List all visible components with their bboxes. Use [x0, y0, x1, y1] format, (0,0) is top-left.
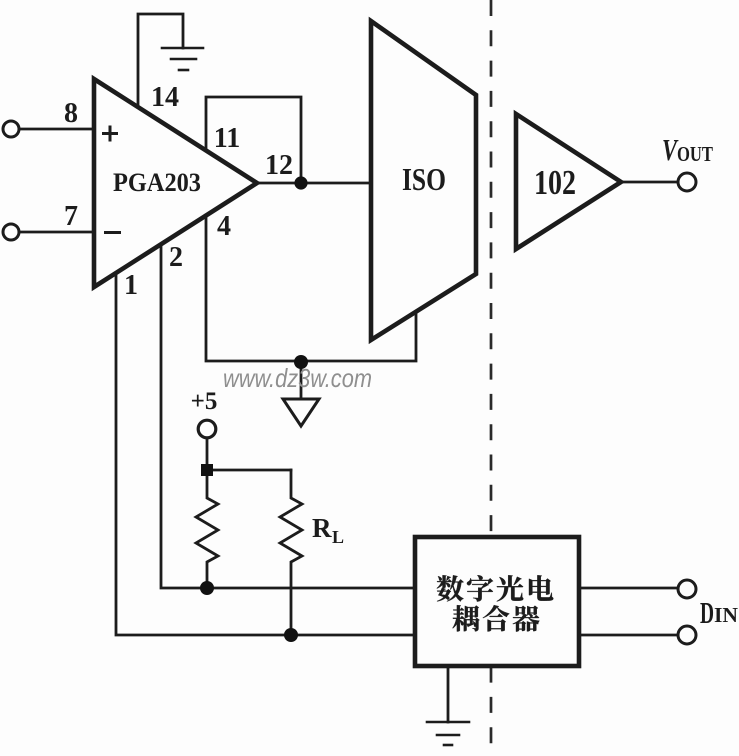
- wire 102 output: [621, 181, 677, 184]
- wire pin 8 input: [19, 128, 94, 131]
- ground G1: [162, 48, 203, 70]
- junction node pin 12: [294, 176, 307, 189]
- junction node RL bottom: [284, 628, 298, 642]
- wire pin 7 input: [19, 231, 94, 234]
- plus sign input: [102, 126, 118, 142]
- junction node feedback: [294, 355, 308, 369]
- input terminal circle pin 8: [3, 121, 19, 137]
- input terminal circle pin 7: [3, 224, 19, 240]
- wire DIN lower: [579, 634, 677, 637]
- svg-text:L: L: [332, 527, 344, 547]
- wire pin 11 loop to pin 12: [206, 97, 301, 183]
- op-amp U3 102 body: [516, 114, 621, 249]
- svg-text:R: R: [312, 513, 332, 543]
- svg-text:1: 1: [124, 270, 138, 301]
- svg-text:12: 12: [265, 150, 293, 181]
- terminal circle DIN lower: [678, 626, 696, 644]
- wire to analog ground triangle: [300, 361, 303, 399]
- ISO block U2: [371, 21, 476, 340]
- wire pin 4 down and feedback bottom: [206, 215, 416, 361]
- wire junction to RL top: [207, 469, 291, 472]
- +5 supply terminal circle: [198, 420, 216, 438]
- svg-text:2: 2: [169, 242, 183, 273]
- minus sign input: [104, 231, 121, 234]
- resistor R1: [196, 470, 218, 588]
- optocoupler box U4: [415, 537, 579, 666]
- resistor RL: [280, 470, 302, 635]
- svg-text:14: 14: [151, 82, 179, 113]
- svg-text:7: 7: [64, 201, 78, 232]
- svg-text:ISO: ISO: [402, 161, 446, 197]
- wire +5 to junction: [206, 438, 209, 470]
- analog ground triangle: [283, 399, 319, 426]
- svg-text:OUT: OUT: [677, 142, 713, 166]
- junction node R1 bottom: [200, 581, 214, 595]
- op-amp U1 PGA203 body: [94, 79, 257, 287]
- svg-text:4: 4: [217, 211, 231, 242]
- svg-text:D: D: [700, 595, 714, 630]
- svg-text:8: 8: [64, 98, 78, 129]
- wire pin 12 output to ISO: [257, 182, 371, 185]
- terminal circle DIN upper: [678, 580, 696, 598]
- svg-text:+5: +5: [191, 388, 218, 415]
- optocoupler label line 2: 耦合器: [453, 605, 540, 631]
- wire pin 1 down to optocoupler: [116, 273, 415, 635]
- isolation barrier dashed line: [490, 0, 493, 756]
- svg-text:11: 11: [214, 123, 240, 154]
- wire DIN upper: [579, 587, 677, 590]
- wire optocoupler to ground: [447, 666, 450, 722]
- output terminal circle VOUT: [678, 173, 696, 191]
- svg-text:102: 102: [534, 163, 576, 202]
- wire pin 2 down to optocoupler: [161, 244, 415, 588]
- svg-text:PGA203: PGA203: [113, 168, 201, 197]
- svg-text:www.dz3w.com: www.dz3w.com: [223, 363, 372, 393]
- junction node +5: [201, 464, 213, 476]
- optocoupler label line 1: 数字光电: [437, 575, 554, 601]
- wire pin 14 to ground: [138, 14, 183, 107]
- svg-text:IN: IN: [714, 603, 738, 627]
- ground G2: [427, 722, 469, 745]
